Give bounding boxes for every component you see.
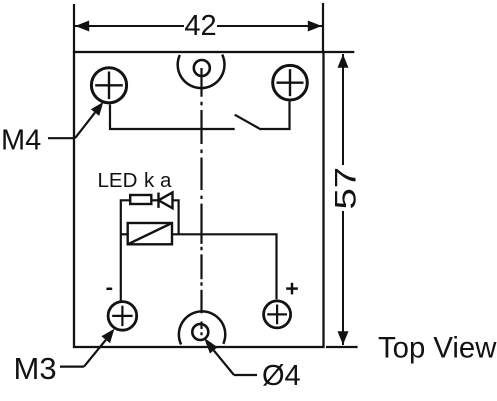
dimension 42 arrows bbox=[75, 21, 89, 32]
LED diode triangle bbox=[159, 192, 173, 208]
dimension 57 line bbox=[342, 54, 344, 165]
M3 leader bbox=[60, 366, 84, 368]
body outline bbox=[74, 52, 324, 347]
dimension 57 extension lines bbox=[324, 51, 354, 53]
label 57 bbox=[329, 167, 362, 210]
wire box output bbox=[172, 234, 277, 299]
plus sign bbox=[286, 287, 298, 290]
svg-text:M3: M3 bbox=[14, 351, 57, 386]
svg-text:42: 42 bbox=[184, 10, 216, 42]
svg-text:57: 57 bbox=[329, 167, 362, 210]
diameter leader bbox=[234, 374, 257, 376]
svg-text:Top View: Top View bbox=[378, 332, 497, 365]
svg-text:Ø4: Ø4 bbox=[262, 360, 301, 392]
center line bbox=[200, 68, 202, 335]
top mounting notch bbox=[178, 55, 225, 89]
contact blade bbox=[235, 115, 261, 130]
svg-text:M4: M4 bbox=[1, 125, 41, 157]
svg-text:LED: LED bbox=[98, 169, 138, 192]
svg-text:k: k bbox=[144, 169, 155, 192]
dimension 42 line bbox=[74, 25, 184, 27]
minus sign bbox=[106, 288, 112, 291]
wire left contact bbox=[110, 105, 235, 130]
M4 leader bbox=[48, 137, 75, 139]
svg-text:a: a bbox=[160, 169, 172, 192]
wire box left junction bbox=[121, 233, 128, 235]
dimension 57 arrows bbox=[338, 54, 349, 68]
bottom mounting notch bbox=[179, 311, 225, 344]
dimension 42 extension lines bbox=[73, 4, 75, 52]
wire LED branch bbox=[121, 200, 130, 300]
screw M3 bottom-left bbox=[108, 302, 137, 331]
input element box bbox=[128, 223, 172, 244]
LED diode cathode bar bbox=[157, 193, 159, 208]
wire right contact bbox=[261, 102, 290, 130]
screw bottom-right bbox=[264, 301, 291, 328]
screw M4 top-right bbox=[273, 65, 308, 100]
screw M4 top-left bbox=[91, 68, 126, 103]
top mounting hole bbox=[194, 60, 210, 76]
bottom mounting hole bbox=[192, 324, 208, 340]
LED series resistor bbox=[130, 195, 151, 204]
